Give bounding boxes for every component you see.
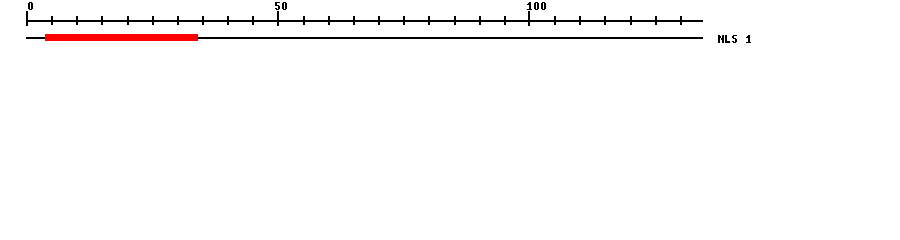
minor tick 95 bbox=[504, 16, 506, 25]
minor tick 90 bbox=[479, 16, 481, 25]
minor tick 130 bbox=[680, 16, 682, 25]
minor tick 85 bbox=[454, 16, 456, 25]
major tick 50 bbox=[277, 11, 279, 26]
ruler line bbox=[26, 20, 703, 22]
minor tick 5 bbox=[51, 16, 53, 25]
minor tick 70 bbox=[378, 16, 380, 25]
minor tick 25 bbox=[152, 16, 154, 25]
minor tick 115 bbox=[604, 16, 606, 25]
feature label NLS 1 bbox=[718, 35, 751, 43]
minor tick 75 bbox=[403, 16, 405, 25]
major tick 0 bbox=[26, 11, 28, 26]
tick label 100 bbox=[527, 2, 546, 10]
tick label 0 bbox=[28, 2, 33, 10]
minor tick 55 bbox=[303, 16, 305, 25]
minor tick 120 bbox=[630, 16, 632, 25]
minor tick 40 bbox=[227, 16, 229, 25]
minor tick 60 bbox=[328, 16, 330, 25]
minor tick 30 bbox=[177, 16, 179, 25]
minor tick 20 bbox=[127, 16, 129, 25]
minor tick 15 bbox=[101, 16, 103, 25]
minor tick 110 bbox=[579, 16, 581, 25]
minor tick 65 bbox=[353, 16, 355, 25]
sequence line bbox=[26, 37, 703, 39]
minor tick 125 bbox=[655, 16, 657, 25]
minor tick 10 bbox=[76, 16, 78, 25]
major tick 100 bbox=[528, 11, 530, 26]
minor tick 80 bbox=[428, 16, 430, 25]
tick label 50 bbox=[275, 2, 287, 10]
minor tick 105 bbox=[554, 16, 556, 25]
minor tick 45 bbox=[252, 16, 254, 25]
minor tick 35 bbox=[202, 16, 204, 25]
domain bar NLS 1 (red feature box) bbox=[45, 34, 198, 41]
